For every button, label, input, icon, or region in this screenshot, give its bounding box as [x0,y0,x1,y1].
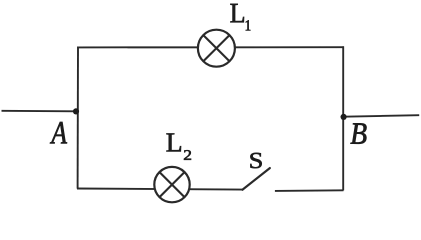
label L2 letter L [167,134,181,152]
wire: right vertical riser to node B [342,46,344,190]
wire: bottom branch right horizontal [275,189,344,192]
wire: top branch horizontal [77,46,344,48]
wire: left lead to node A [2,110,77,113]
label A [50,122,67,143]
node B junction dot [341,114,347,120]
lamp L2 [154,167,189,202]
label B [350,123,366,143]
wire: bottom branch left horizontal [77,189,243,190]
lamp L1 [198,30,235,67]
wire: right lead from node B [344,115,420,117]
label L1 letter L [230,4,244,22]
label S [250,153,261,168]
wire: left vertical riser from node A [77,47,79,189]
switch S blade [242,168,269,190]
label L1 subscript 1 [246,20,250,30]
label L2 subscript 2 [184,150,191,160]
node A junction dot [73,108,79,114]
